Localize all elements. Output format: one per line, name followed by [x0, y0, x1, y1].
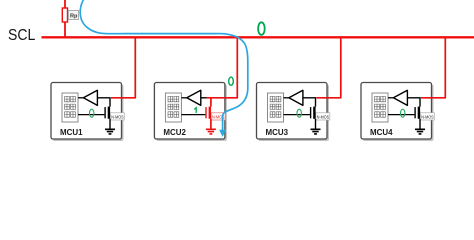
MCU2 box shadow	[156, 85, 227, 142]
label N-MOS	[110, 113, 124, 121]
transistor Q4 N-MOS	[414, 107, 420, 130]
svg-text:N-MOS: N-MOS	[317, 114, 329, 120]
MCU4 control box text (输入/输出/控制)	[375, 96, 386, 117]
transistor Q1 N-MOS	[104, 107, 110, 130]
svg-text:N-MOS: N-MOS	[421, 114, 433, 120]
ground (MCU3)	[311, 129, 321, 134]
resistor Rp	[62, 8, 67, 22]
label N-MOS	[420, 113, 434, 121]
wire bus to MCU1 pin	[111, 37, 135, 98]
MCU3 box	[257, 83, 328, 140]
label Rp	[68, 11, 78, 20]
node 0 (MCU2 pin level)	[229, 77, 234, 85]
svg-text:MCU4: MCU4	[370, 127, 393, 137]
wire gate (control to N-MOS gate)	[284, 114, 310, 116]
svg-text:MCU2: MCU2	[163, 127, 186, 137]
wire gate (control to N-MOS gate)	[78, 114, 104, 116]
transistor Q2 N-MOS (conducting, red)	[205, 107, 211, 130]
wire buffer to drain node	[303, 98, 316, 107]
svg-text:MCU1: MCU1	[60, 127, 83, 137]
svg-text:N-MOS: N-MOS	[111, 114, 123, 120]
MCU4 box	[361, 83, 432, 140]
MCU4 box shadow	[363, 85, 434, 142]
wire bus to MCU2 pin (conducting, red)	[206, 37, 237, 98]
node gate level 0	[297, 109, 301, 117]
node gate level 0	[401, 109, 405, 117]
wire bus to MCU3 pin	[317, 37, 341, 98]
MCU2 control box text (输入/输出/控制)	[168, 96, 179, 117]
MCU3 box shadow	[259, 85, 330, 142]
svg-text:Rp: Rp	[70, 13, 78, 19]
MCU3 control box text (输入/输出/控制)	[270, 96, 281, 117]
ground (MCU1)	[105, 129, 115, 134]
wire SCL bus	[42, 36, 474, 38]
MCU1 box shadow	[53, 85, 124, 142]
node gate level 0	[90, 109, 94, 117]
svg-text:SCL: SCL	[8, 27, 35, 44]
buffer U3 (input buffer triangle)	[289, 90, 303, 105]
wire buffer to drain node	[407, 98, 420, 107]
buffer U2 (input buffer triangle)	[187, 90, 201, 105]
wire drain lead (red, conducting)	[210, 98, 212, 107]
MCU4 I/O control box	[372, 93, 388, 122]
MCU1 I/O control box	[62, 93, 78, 122]
MCU2 box	[154, 83, 225, 140]
buffer U1 (input buffer triangle)	[83, 90, 97, 105]
wire gate (control to N-MOS gate)	[181, 114, 205, 116]
ground (MCU4)	[415, 129, 425, 134]
wire buffer to drain node (black stub)	[201, 97, 207, 99]
wire buffer to drain node	[97, 98, 110, 107]
MCU2 I/O control box	[165, 93, 181, 122]
wire control to buffer U4	[388, 97, 393, 99]
node 0 (bus logic level)	[258, 22, 265, 35]
buffer U4 (input buffer triangle)	[393, 90, 407, 105]
wire gate (control to N-MOS gate)	[388, 114, 414, 116]
label N-MOS (red)	[211, 113, 225, 121]
MCU1 control box text (输入/输出/控制)	[65, 96, 76, 117]
transistor Q3 N-MOS	[310, 107, 316, 130]
wire VCC to resistor Rp	[64, 0, 66, 37]
wire bus to MCU4 pin	[421, 37, 445, 98]
wire control to buffer U2	[181, 97, 186, 99]
blue current path arrow (Rp through bus into MCU2 N-MOS to ground)	[80, 0, 248, 137]
node gate level 1	[194, 108, 196, 113]
svg-text:MCU3: MCU3	[266, 127, 289, 137]
wire control to buffer U3	[284, 97, 289, 99]
label N-MOS	[316, 113, 330, 121]
MCU3 I/O control box	[268, 93, 284, 122]
wire control to buffer U1	[78, 97, 83, 99]
MCU1 box	[51, 83, 122, 140]
ground (MCU2, red)	[206, 129, 216, 134]
